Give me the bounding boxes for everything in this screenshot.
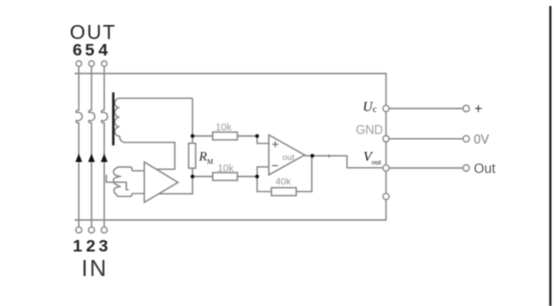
svg-text:2: 2	[86, 236, 95, 255]
svg-text:GND: GND	[356, 123, 383, 137]
svg-text:5: 5	[85, 41, 94, 60]
svg-text:10k: 10k	[218, 164, 235, 175]
svg-text:IN: IN	[81, 255, 108, 281]
svg-text:1: 1	[73, 236, 82, 255]
svg-text:0V: 0V	[474, 132, 490, 146]
svg-text:R: R	[198, 149, 207, 164]
svg-text:3: 3	[99, 236, 108, 255]
svg-text:+: +	[474, 100, 482, 116]
svg-text:40k: 40k	[276, 176, 292, 187]
svg-text:10k: 10k	[216, 123, 233, 134]
svg-text:out: out	[283, 152, 295, 162]
svg-text:c: c	[373, 104, 377, 114]
svg-text:Out: Out	[474, 161, 496, 176]
svg-text:4: 4	[98, 41, 108, 60]
svg-text:M: M	[207, 158, 214, 166]
svg-text:6: 6	[73, 41, 82, 60]
svg-text:out: out	[372, 157, 383, 166]
